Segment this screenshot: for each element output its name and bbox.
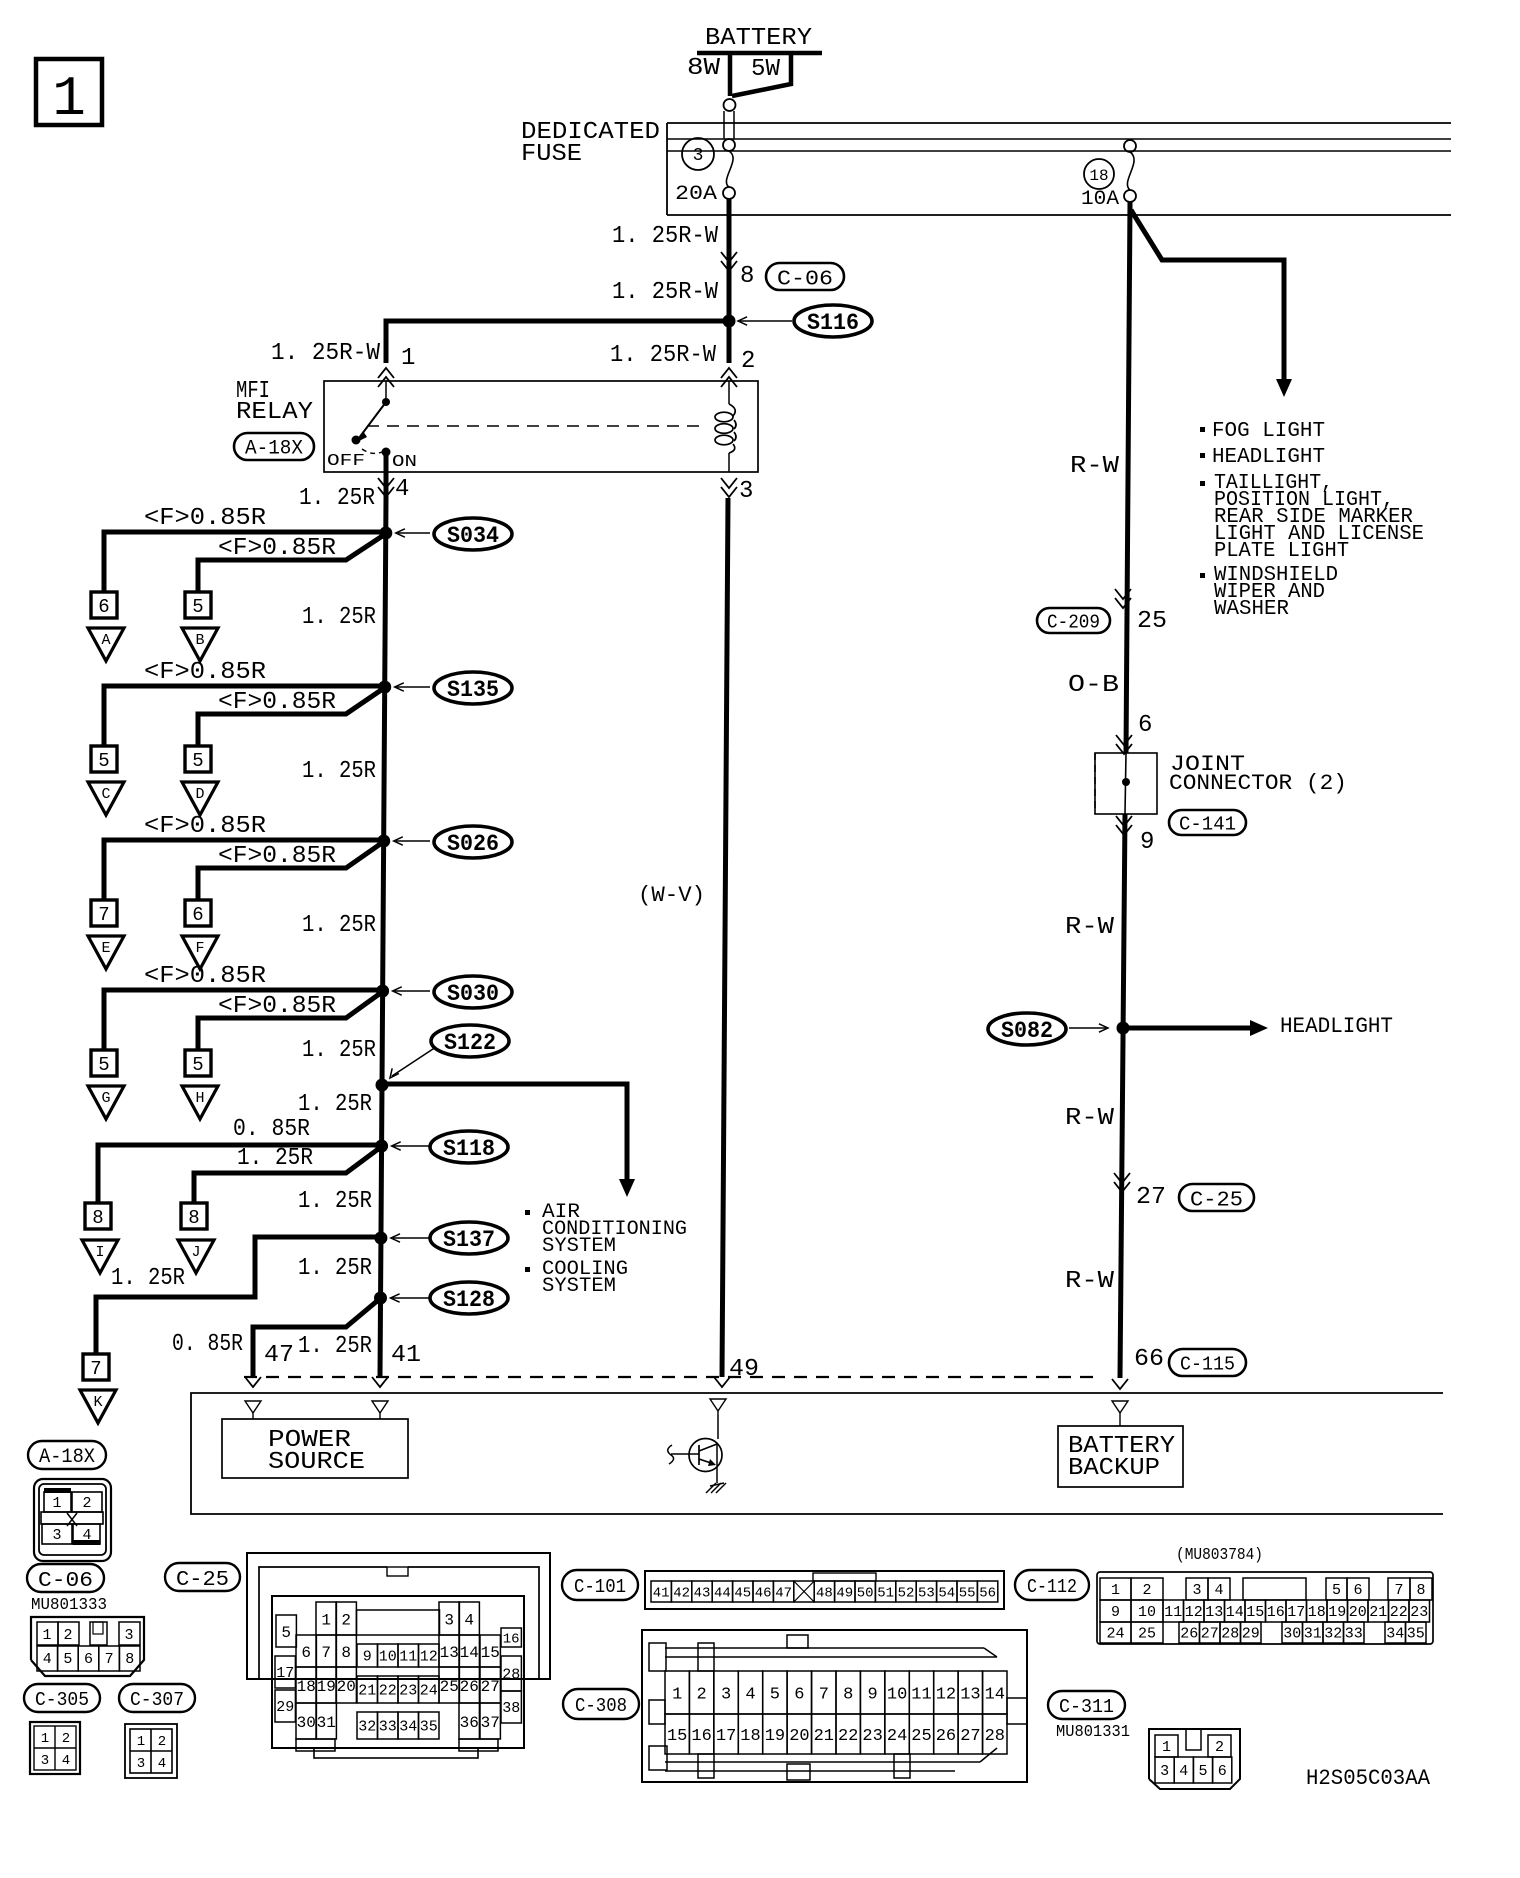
splice S128 pointer arrow <box>391 1294 431 1302</box>
svg-text:1: 1 <box>42 1627 51 1644</box>
svg-text:53: 53 <box>918 1586 935 1602</box>
svg-text:52: 52 <box>898 1586 915 1602</box>
svg-text:2: 2 <box>1215 1739 1224 1756</box>
svg-text:C-311: C-311 <box>1059 1696 1114 1718</box>
svg-text:C-112: C-112 <box>1027 1576 1077 1598</box>
svg-text:3: 3 <box>444 1612 454 1630</box>
svg-text:0. 85R: 0. 85R <box>233 1116 310 1143</box>
svg-text:10: 10 <box>1138 1604 1156 1621</box>
wire S116 to MFI relay pin1 (thick elbow) <box>386 321 729 363</box>
svg-text:18: 18 <box>740 1727 760 1746</box>
POWER SOURCE box <box>222 1419 408 1478</box>
svg-text:1: 1 <box>1111 1582 1120 1599</box>
destination triangle I <box>82 1240 118 1273</box>
connector pin box 6 <box>91 592 117 618</box>
svg-text:3: 3 <box>52 1527 61 1544</box>
wire label 1.25R below S030 <box>302 1037 376 1064</box>
svg-text:32: 32 <box>358 1719 376 1736</box>
C-305 connector face <box>30 1722 80 1774</box>
svg-text:51: 51 <box>877 1586 894 1602</box>
svg-text:13: 13 <box>440 1644 459 1662</box>
svg-text:18: 18 <box>1089 167 1108 185</box>
pin 41 label <box>391 1342 421 1369</box>
connector pin box 5 <box>91 1050 117 1076</box>
wire label <F>0.85R branch1 <box>144 813 266 840</box>
pin 27 label <box>1136 1184 1166 1211</box>
relay pin2 arrow into box <box>721 368 737 387</box>
relay switch ON contact dot <box>382 448 391 499</box>
connector pin box 8 (J) <box>181 1203 207 1229</box>
svg-text:2: 2 <box>63 1627 72 1644</box>
svg-text:4: 4 <box>745 1686 755 1705</box>
svg-text:46: 46 <box>755 1586 772 1602</box>
destination triangle F <box>182 936 218 969</box>
MFI relay name <box>236 378 313 426</box>
svg-text:42: 42 <box>673 1586 690 1602</box>
connector ref C-115 <box>1169 1349 1246 1376</box>
wire label 1.25R below S034 <box>302 604 376 631</box>
splice S135 junction <box>378 681 391 694</box>
wire battery to fuse box (double thin) <box>724 111 734 139</box>
fuse 3 circled number <box>682 138 714 170</box>
fuse box bus rail lower <box>667 150 1451 152</box>
svg-text:17: 17 <box>276 1665 294 1682</box>
svg-text:1. 25R: 1. 25R <box>302 604 376 631</box>
wire label <F>0.85R branch2 <box>218 843 336 870</box>
svg-text:1. 25R-W: 1. 25R-W <box>610 342 717 369</box>
svg-text:12: 12 <box>1185 1604 1203 1621</box>
svg-text:CONNECTOR (2): CONNECTOR (2) <box>1169 771 1347 796</box>
svg-text:8: 8 <box>1416 1582 1425 1599</box>
HEADLIGHT destination label <box>1280 1014 1393 1039</box>
svg-text:S116: S116 <box>807 310 859 336</box>
battery output node circle <box>724 99 736 111</box>
svg-text:C-307: C-307 <box>130 1689 184 1711</box>
svg-text:19: 19 <box>1328 1604 1346 1621</box>
fuse 18 element <box>1124 140 1136 202</box>
svg-text:22: 22 <box>838 1727 858 1746</box>
svg-text:O-B: O-B <box>1068 672 1119 699</box>
svg-text:4: 4 <box>62 1753 70 1769</box>
svg-text:1. 25R: 1. 25R <box>299 485 375 512</box>
svg-text:32: 32 <box>1324 1626 1342 1643</box>
svg-text:7: 7 <box>90 1358 101 1380</box>
svg-text:1. 25R: 1. 25R <box>302 758 376 785</box>
connector ref C-141 <box>1169 810 1246 836</box>
svg-text:31: 31 <box>1304 1626 1322 1643</box>
wire fuse18 down to joint connector (R-W) <box>1126 202 1130 753</box>
svg-text:9: 9 <box>1140 829 1154 856</box>
wire branch 1 of S034 (<F>0.85R) <box>104 532 386 592</box>
svg-text:8: 8 <box>125 1651 134 1668</box>
svg-text:1: 1 <box>1162 1739 1171 1756</box>
svg-text:20A: 20A <box>675 183 717 206</box>
svg-text:25: 25 <box>440 1678 459 1696</box>
svg-text:34: 34 <box>1386 1626 1404 1643</box>
connector pin box 5 <box>185 592 211 618</box>
splice S026 label <box>434 826 512 858</box>
svg-text:36: 36 <box>460 1714 479 1732</box>
wire branch 1 of S135 (<F>0.85R) <box>104 686 385 746</box>
wire label 1.25R below pin4 <box>299 485 375 512</box>
svg-text:10A: 10A <box>1081 188 1119 211</box>
C-112 part number MU803784 <box>1176 1546 1263 1565</box>
svg-text:1. 25R: 1. 25R <box>298 1188 372 1215</box>
svg-text:27: 27 <box>481 1678 500 1696</box>
relay coil <box>715 381 736 472</box>
svg-text:6: 6 <box>1218 1763 1227 1780</box>
pin 47 label <box>264 1342 294 1369</box>
svg-text:5: 5 <box>1332 1582 1341 1599</box>
svg-text:11: 11 <box>911 1686 931 1705</box>
svg-text:C-141: C-141 <box>1179 814 1236 836</box>
svg-text:8: 8 <box>341 1644 351 1662</box>
svg-text:24: 24 <box>887 1727 907 1746</box>
svg-text:33: 33 <box>379 1719 397 1736</box>
svg-text:J: J <box>191 1244 200 1261</box>
splice S118 pointer arrow <box>392 1142 430 1150</box>
svg-text:27: 27 <box>1136 1184 1166 1211</box>
svg-text:26: 26 <box>936 1727 956 1746</box>
connector pin box 7 (K) <box>83 1354 109 1380</box>
destination triangle D <box>182 782 218 815</box>
svg-text:4: 4 <box>1179 1763 1188 1780</box>
C-311 part number MU801331 <box>1056 1723 1130 1742</box>
wire label <F>0.85R branch2 <box>218 689 336 716</box>
svg-text:29: 29 <box>1242 1626 1260 1643</box>
svg-text:25: 25 <box>1137 608 1167 635</box>
splice S135 label <box>434 672 512 704</box>
svg-text:1. 25R-W: 1. 25R-W <box>612 223 719 250</box>
svg-text:17: 17 <box>716 1727 736 1746</box>
wire label R-W lower <box>1065 1268 1115 1295</box>
svg-text:6: 6 <box>301 1644 311 1662</box>
svg-text:C-305: C-305 <box>35 1689 89 1711</box>
C-308 connector face <box>642 1630 1027 1782</box>
svg-text:41: 41 <box>653 1586 670 1602</box>
svg-text:15: 15 <box>481 1644 500 1662</box>
svg-text:C-115: C-115 <box>1180 1354 1235 1376</box>
svg-text:S122: S122 <box>444 1030 496 1056</box>
svg-text:3: 3 <box>739 478 753 505</box>
connector ref A-18X bottom <box>28 1441 106 1469</box>
connector pin box 8 (I) <box>85 1203 111 1229</box>
8W wire label <box>687 55 721 82</box>
svg-text:S034: S034 <box>447 523 499 549</box>
pin 1 label MFI relay <box>401 345 415 372</box>
svg-text:1: 1 <box>401 345 415 372</box>
wire MFI relay pin3 down to pin49 (W-V) <box>722 498 728 1377</box>
splice S116 junction <box>723 315 736 328</box>
wire label R-W upper right <box>1070 453 1120 480</box>
svg-text:HEADLIGHT: HEADLIGHT <box>1280 1014 1393 1039</box>
svg-text:20: 20 <box>1349 1604 1367 1621</box>
svg-text:3: 3 <box>1160 1763 1169 1780</box>
svg-text:7: 7 <box>819 1686 829 1705</box>
destination triangle C <box>88 782 124 815</box>
svg-text:5W: 5W <box>751 56 781 83</box>
splice S137 junction <box>374 1232 387 1245</box>
fuse 3 element <box>723 139 735 199</box>
svg-text:14: 14 <box>985 1686 1005 1705</box>
svg-text:49: 49 <box>729 1356 759 1383</box>
connector ref C-112 <box>1015 1570 1089 1600</box>
relay OFF label <box>327 452 365 471</box>
svg-text:7: 7 <box>1394 1582 1403 1599</box>
svg-text:9: 9 <box>363 1649 372 1666</box>
svg-text:3: 3 <box>721 1686 731 1705</box>
svg-text:C-06: C-06 <box>38 1570 93 1593</box>
svg-text:25: 25 <box>1138 1626 1156 1643</box>
svg-text:13: 13 <box>1205 1604 1223 1621</box>
svg-text:7: 7 <box>105 1651 114 1668</box>
splice S030 pointer arrow <box>393 987 430 995</box>
svg-text:SYSTEM: SYSTEM <box>542 1275 616 1298</box>
power supply outer box <box>191 1393 1443 1514</box>
svg-text:1: 1 <box>52 1495 61 1512</box>
C-101 connector face <box>645 1571 1004 1609</box>
svg-text:10: 10 <box>379 1649 397 1666</box>
svg-text:S137: S137 <box>443 1227 495 1253</box>
relay switch dashed travel arc <box>362 449 382 453</box>
A-18X connector face <box>34 1479 111 1561</box>
splice S034 junction <box>379 527 392 540</box>
relay pin3 arrow out of box <box>721 478 737 497</box>
splice S082 pointer arrow <box>1069 1024 1108 1032</box>
svg-text:33: 33 <box>1345 1626 1363 1643</box>
svg-text:1. 25R-W: 1. 25R-W <box>271 340 381 367</box>
lighting bullet list <box>1200 420 1424 621</box>
svg-text:RELAY: RELAY <box>236 399 313 426</box>
svg-text:7: 7 <box>98 904 109 926</box>
svg-text:18: 18 <box>1308 1604 1326 1621</box>
wire label 1.25R below S122 <box>298 1091 372 1118</box>
svg-text:23: 23 <box>1410 1604 1428 1621</box>
svg-text:15: 15 <box>667 1727 687 1746</box>
svg-text:S118: S118 <box>443 1136 495 1162</box>
svg-text:35: 35 <box>420 1719 438 1736</box>
svg-text:35: 35 <box>1407 1626 1425 1643</box>
svg-text:SYSTEM: SYSTEM <box>542 1235 616 1258</box>
svg-text:1: 1 <box>137 1734 145 1750</box>
fuse box bus rail upper <box>667 138 1451 140</box>
svg-text:C-308: C-308 <box>575 1695 627 1717</box>
wire label 1.25R at S137 branch <box>111 1265 185 1292</box>
splice S122 junction <box>376 1079 389 1092</box>
wire label 1.25R at pin41 <box>298 1333 372 1360</box>
svg-text:5: 5 <box>770 1686 780 1705</box>
svg-text:S128: S128 <box>443 1287 495 1313</box>
svg-text:56: 56 <box>979 1586 996 1602</box>
svg-text:3: 3 <box>693 146 704 166</box>
svg-text:I: I <box>95 1244 104 1261</box>
svg-text:20: 20 <box>789 1727 809 1746</box>
pin 3 label <box>739 478 753 505</box>
wire label 0.85R at pin47 <box>172 1331 243 1358</box>
wire label R-W mid1 <box>1065 914 1115 941</box>
svg-text:6: 6 <box>1138 712 1152 739</box>
svg-text:R-W: R-W <box>1065 914 1115 941</box>
svg-text:15: 15 <box>1246 1604 1264 1621</box>
pin 49 label <box>729 1356 759 1383</box>
svg-text:5: 5 <box>98 1054 109 1076</box>
joint connector arrow out <box>1116 816 1132 835</box>
connector ref C-307 <box>119 1684 195 1712</box>
svg-text:47: 47 <box>264 1342 294 1369</box>
svg-text:30: 30 <box>297 1714 316 1732</box>
svg-text:16: 16 <box>1267 1604 1285 1621</box>
connector ref C-25 bottom <box>165 1563 240 1592</box>
BATTERY BACKUP box <box>1058 1426 1183 1487</box>
svg-text:1: 1 <box>321 1612 331 1630</box>
svg-text:12: 12 <box>936 1686 956 1705</box>
wire branch 1 of S026 (<F>0.85R) <box>104 840 384 900</box>
wire S082 to headlight (thick with arrow) <box>1123 1020 1268 1036</box>
wire label 1.25R below S137 <box>298 1255 372 1282</box>
MFI relay connector ref A-18X <box>234 433 314 461</box>
svg-text:11: 11 <box>1164 1604 1182 1621</box>
splice S116 label <box>794 305 872 337</box>
svg-text:ON: ON <box>392 453 417 472</box>
svg-text:55: 55 <box>959 1586 976 1602</box>
svg-text:3: 3 <box>1192 1582 1201 1599</box>
svg-text:21: 21 <box>1369 1604 1387 1621</box>
svg-text:38: 38 <box>502 1700 520 1717</box>
pin 66 label <box>1134 1346 1164 1373</box>
svg-text:2: 2 <box>696 1686 706 1705</box>
fuse box outline <box>667 123 1451 215</box>
svg-text:4: 4 <box>395 476 409 503</box>
connector ref C-25 inline <box>1179 1184 1254 1213</box>
svg-text:3: 3 <box>124 1627 133 1644</box>
svg-text:25: 25 <box>911 1727 931 1746</box>
svg-text:C-101: C-101 <box>574 1576 626 1598</box>
svg-text:16: 16 <box>503 1632 520 1648</box>
splice S034 label <box>434 518 512 550</box>
wire label <F>0.85R branch2 <box>218 993 336 1020</box>
wire label 1.25R below S026 <box>302 912 376 939</box>
splice S118 label <box>430 1131 508 1163</box>
svg-text:6: 6 <box>1353 1582 1362 1599</box>
wire label O-B <box>1068 672 1119 699</box>
svg-text:6: 6 <box>794 1686 804 1705</box>
wire joint connector down to pin66 (R-W) <box>1120 814 1125 1378</box>
wire branch of S137 (1.25R to K) <box>96 1237 381 1354</box>
svg-text:2: 2 <box>82 1495 91 1512</box>
wire label R-W mid2 <box>1065 1105 1115 1132</box>
svg-text:1. 25R: 1. 25R <box>302 912 376 939</box>
svg-text:37: 37 <box>481 1714 500 1732</box>
svg-text:1: 1 <box>672 1686 682 1705</box>
connector pin box 5 <box>185 1050 211 1076</box>
svg-text:24: 24 <box>1106 1626 1124 1643</box>
relay actuation dashed link <box>367 425 706 427</box>
destination triangle E <box>88 936 124 969</box>
svg-text:5: 5 <box>192 596 203 618</box>
wire branch 2 of S026 (<F>0.85R) <box>198 843 382 900</box>
pin 25 label <box>1137 608 1167 635</box>
power source feed arrow 2 <box>372 1401 388 1419</box>
connector ref C-06 inline <box>766 263 844 292</box>
svg-text:17: 17 <box>1287 1604 1305 1621</box>
left bus wire 1.25R (pin4 to connector 41) <box>380 498 386 1377</box>
svg-text:S082: S082 <box>1001 1018 1053 1044</box>
destination triangle K <box>80 1390 116 1423</box>
svg-text:21: 21 <box>358 1683 376 1700</box>
relay ON label <box>392 453 417 472</box>
svg-text:7: 7 <box>321 1644 331 1662</box>
wire arrow into C-25 <box>1114 1173 1130 1192</box>
svg-text:9: 9 <box>867 1686 877 1705</box>
svg-text:F: F <box>195 940 204 957</box>
harness boundary dashed line <box>244 1376 1098 1378</box>
relay pin1 arrow into box <box>378 368 394 387</box>
splice S122 pointer arrow <box>390 1047 436 1078</box>
svg-text:11: 11 <box>399 1649 417 1666</box>
connector ref C-308 <box>563 1689 639 1719</box>
svg-text:PLATE LIGHT: PLATE LIGHT <box>1214 540 1349 563</box>
C-311 connector face <box>1149 1729 1240 1789</box>
svg-text:2: 2 <box>341 1612 351 1630</box>
svg-text:47: 47 <box>775 1586 792 1602</box>
wire label <F>0.85R branch1 <box>144 659 266 686</box>
svg-text:MU801333: MU801333 <box>31 1596 107 1615</box>
wire arrow into C-06 <box>721 252 737 271</box>
connector pin box 7 <box>91 900 117 926</box>
svg-text:27: 27 <box>1201 1626 1219 1643</box>
svg-text:1. 25R: 1. 25R <box>111 1265 185 1292</box>
svg-text:45: 45 <box>734 1586 751 1602</box>
wire S122 to A/C system (thick elbow with arrow) <box>382 1084 635 1197</box>
fuse 3 rating 20A <box>675 183 717 206</box>
ground control transistor symbol <box>668 1439 722 1484</box>
C-06 connector face <box>31 1617 144 1676</box>
svg-text:9: 9 <box>1111 1604 1120 1621</box>
connector ref C-209 <box>1037 608 1110 634</box>
svg-text:4: 4 <box>1214 1582 1223 1599</box>
svg-text:13: 13 <box>960 1686 980 1705</box>
C-112 connector face <box>1097 1572 1433 1644</box>
svg-text:<F>0.85R: <F>0.85R <box>218 689 336 716</box>
svg-text:28: 28 <box>1221 1626 1239 1643</box>
svg-text:3: 3 <box>137 1756 145 1772</box>
svg-text:2: 2 <box>1142 1582 1151 1599</box>
splice S034 pointer arrow <box>396 529 430 537</box>
svg-text:1. 25R: 1. 25R <box>237 1145 313 1172</box>
connector ref C-305 <box>24 1684 100 1712</box>
wire arrow pin66 <box>1112 1379 1128 1389</box>
svg-text:10: 10 <box>887 1686 907 1705</box>
svg-text:16: 16 <box>691 1727 711 1746</box>
svg-text:6: 6 <box>192 904 203 926</box>
wire S116 down to pin2 (1.25R-W) <box>727 321 732 363</box>
joint connector name <box>1169 752 1347 796</box>
destination triangle J <box>178 1240 214 1273</box>
connector ref C-06 bottom <box>27 1564 104 1593</box>
svg-text:0. 85R: 0. 85R <box>172 1331 243 1358</box>
svg-text:C-06: C-06 <box>777 269 833 292</box>
battery backup feed arrow <box>1112 1401 1128 1426</box>
destination triangle H <box>182 1086 218 1119</box>
svg-text:4: 4 <box>43 1651 52 1668</box>
splice S030 junction <box>376 985 389 998</box>
svg-text:1. 25R: 1. 25R <box>298 1333 372 1360</box>
pin 4 label <box>395 476 409 503</box>
svg-text:26: 26 <box>1180 1626 1198 1643</box>
svg-text:<F>0.85R: <F>0.85R <box>144 505 266 532</box>
wire branch to lighting systems (thick elbow with arrow) <box>1131 210 1292 397</box>
ground symbol <box>706 1483 726 1493</box>
